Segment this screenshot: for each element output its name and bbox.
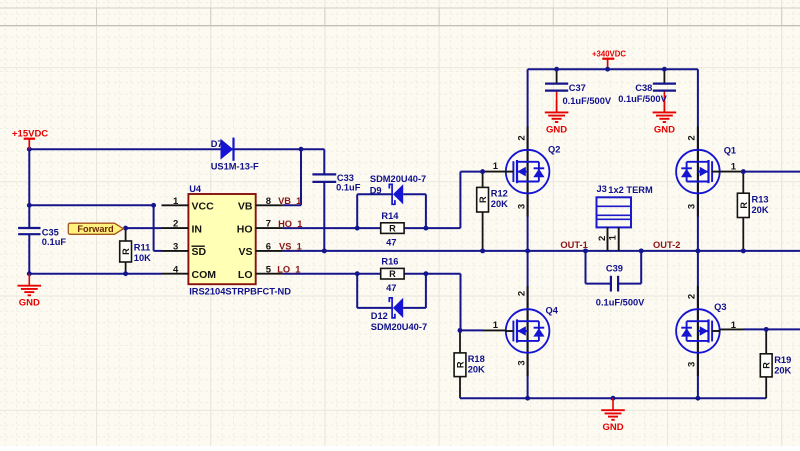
svg-text:GND: GND bbox=[654, 124, 675, 135]
svg-text:0.1uF/500V: 0.1uF/500V bbox=[596, 298, 645, 308]
svg-text:LO: LO bbox=[238, 269, 253, 281]
svg-text:U4: U4 bbox=[189, 184, 202, 194]
svg-text:10K: 10K bbox=[134, 253, 151, 263]
svg-text:1: 1 bbox=[493, 161, 499, 172]
svg-text:VS: VS bbox=[238, 246, 252, 258]
svg-text:SDM20U40-7: SDM20U40-7 bbox=[371, 322, 427, 332]
svg-text:GND: GND bbox=[546, 124, 567, 135]
svg-text:+340VDC: +340VDC bbox=[592, 50, 626, 59]
svg-text:3: 3 bbox=[687, 204, 698, 209]
svg-text:6: 6 bbox=[266, 242, 271, 253]
svg-text:R: R bbox=[478, 196, 488, 203]
svg-text:1: 1 bbox=[173, 196, 179, 207]
svg-text:R16: R16 bbox=[381, 257, 398, 267]
svg-text:Q4: Q4 bbox=[546, 306, 559, 316]
svg-text:VB_1: VB_1 bbox=[278, 196, 301, 206]
svg-text:C38: C38 bbox=[635, 83, 652, 93]
svg-text:3: 3 bbox=[173, 242, 178, 253]
svg-text:R: R bbox=[456, 361, 466, 368]
svg-text:1: 1 bbox=[731, 320, 737, 331]
svg-text:3: 3 bbox=[687, 362, 698, 367]
svg-text:20K: 20K bbox=[774, 366, 791, 376]
svg-text:R12: R12 bbox=[491, 189, 508, 199]
svg-text:OUT-2: OUT-2 bbox=[653, 240, 680, 250]
svg-text:20K: 20K bbox=[468, 365, 485, 375]
svg-text:0.1uF/500V: 0.1uF/500V bbox=[618, 94, 667, 104]
svg-text:IN: IN bbox=[192, 223, 203, 235]
svg-text:SD: SD bbox=[192, 246, 207, 258]
svg-text:OUT-1: OUT-1 bbox=[560, 240, 587, 250]
svg-text:VS_1: VS_1 bbox=[279, 242, 302, 252]
svg-text:1x2 TERM: 1x2 TERM bbox=[608, 185, 653, 195]
svg-text:20K: 20K bbox=[752, 205, 769, 215]
svg-text:47: 47 bbox=[386, 237, 396, 247]
svg-text:7: 7 bbox=[266, 219, 271, 230]
svg-text:5: 5 bbox=[266, 264, 272, 275]
svg-text:47: 47 bbox=[386, 283, 396, 293]
svg-text:D12: D12 bbox=[371, 311, 388, 321]
svg-text:C39: C39 bbox=[606, 264, 623, 274]
svg-text:HO_1: HO_1 bbox=[278, 219, 302, 229]
svg-text:LO_1: LO_1 bbox=[277, 265, 300, 275]
svg-text:Forward: Forward bbox=[77, 224, 113, 234]
svg-text:Q2: Q2 bbox=[548, 144, 560, 154]
svg-text:R: R bbox=[121, 248, 131, 255]
svg-text:1: 1 bbox=[607, 234, 618, 240]
svg-text:1: 1 bbox=[731, 161, 737, 172]
svg-text:R: R bbox=[389, 224, 396, 234]
svg-text:GND: GND bbox=[19, 298, 40, 309]
svg-text:0.1uF: 0.1uF bbox=[336, 182, 361, 192]
svg-text:C37: C37 bbox=[569, 83, 586, 93]
svg-text:3: 3 bbox=[516, 204, 527, 209]
svg-text:2: 2 bbox=[516, 291, 527, 296]
svg-text:R19: R19 bbox=[774, 355, 791, 365]
svg-text:J3: J3 bbox=[597, 184, 607, 194]
svg-text:SDM20U40-7: SDM20U40-7 bbox=[370, 174, 426, 184]
svg-text:Q3: Q3 bbox=[714, 302, 726, 312]
svg-text:0.1uF/500V: 0.1uF/500V bbox=[563, 96, 612, 106]
svg-text:COM: COM bbox=[192, 269, 217, 281]
svg-text:R14: R14 bbox=[381, 211, 399, 221]
svg-text:GND: GND bbox=[602, 422, 623, 433]
svg-text:R18: R18 bbox=[468, 354, 485, 364]
svg-text:3: 3 bbox=[516, 360, 527, 365]
svg-text:US1M-13-F: US1M-13-F bbox=[211, 162, 259, 172]
svg-text:R: R bbox=[739, 202, 749, 209]
svg-text:20K: 20K bbox=[491, 199, 508, 209]
svg-text:VB: VB bbox=[238, 201, 253, 213]
svg-text:HO: HO bbox=[237, 223, 253, 235]
svg-text:R: R bbox=[389, 269, 396, 279]
svg-text:Q1: Q1 bbox=[724, 146, 736, 156]
svg-text:8: 8 bbox=[266, 196, 271, 207]
svg-text:2: 2 bbox=[173, 219, 178, 230]
svg-text:2: 2 bbox=[687, 294, 698, 299]
svg-text:R: R bbox=[762, 362, 772, 369]
svg-text:2: 2 bbox=[687, 135, 698, 140]
svg-text:2: 2 bbox=[516, 135, 527, 140]
svg-text:4: 4 bbox=[173, 264, 179, 275]
svg-text:R11: R11 bbox=[134, 242, 151, 252]
svg-text:1: 1 bbox=[493, 320, 499, 331]
svg-text:VCC: VCC bbox=[192, 201, 215, 213]
svg-text:D9: D9 bbox=[370, 185, 382, 195]
svg-text:0.1uF: 0.1uF bbox=[42, 237, 67, 247]
svg-text:D7: D7 bbox=[211, 139, 223, 149]
svg-text:IRS2104STRPBFCT-ND: IRS2104STRPBFCT-ND bbox=[189, 287, 291, 297]
svg-text:C35: C35 bbox=[42, 228, 59, 238]
svg-text:R13: R13 bbox=[752, 195, 769, 205]
